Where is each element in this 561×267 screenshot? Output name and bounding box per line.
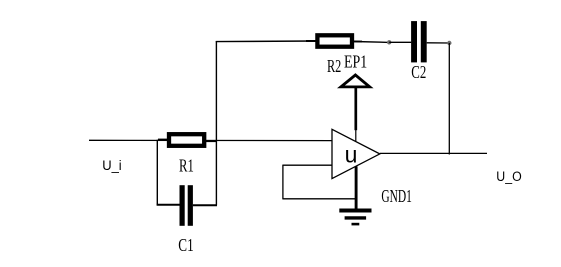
wire feedback-loop left vertical: [282, 165, 284, 200]
wire C1 bottom-right lead: [193, 204, 217, 206]
wire output-node vertical drop: [448, 43, 450, 155]
wire C1 bottom-left lead: [157, 204, 180, 206]
svg-text:R1: R1: [179, 155, 194, 175]
wire R1 left lead: [158, 139, 170, 141]
svg-text:R2: R2: [327, 56, 341, 76]
wire op-amp upper input: [283, 164, 332, 166]
resistor R2: [317, 35, 352, 46]
resistor R1: [169, 134, 204, 146]
wire R2 left lead: [306, 40, 318, 42]
wire dot to C2: [389, 41, 411, 43]
svg-text:U_i: U_i: [102, 158, 122, 173]
wire R2 right lead stub: [353, 40, 362, 42]
junction dot (R2-C2 node): [387, 40, 391, 44]
wire C2 to output node: [427, 42, 450, 44]
wire input U_i horizontal: [89, 139, 332, 141]
svg-text:U_O: U_O: [496, 169, 521, 184]
svg-text:C2: C2: [411, 62, 426, 82]
wire R2 right lead: [354, 41, 389, 44]
wire parallel-box left vertical: [156, 140, 158, 205]
wire feedback/right vertical (top corner to C1): [215, 41, 217, 205]
wire feedback-loop bottom horizontal: [283, 198, 356, 200]
junction dot (C2-output node): [447, 41, 451, 45]
wire R1 right lead: [204, 140, 217, 142]
op-amp U1: [332, 129, 380, 178]
wire op-amp to ground (thick): [355, 166, 358, 209]
capacitor C2: [411, 21, 427, 62]
svg-text:GND1: GND1: [381, 186, 412, 206]
power symbol EP1 (arrow): [341, 75, 370, 141]
wire output U_O horizontal: [380, 152, 487, 154]
svg-text:EP1: EP1: [344, 51, 367, 71]
capacitor C1: [180, 185, 193, 226]
wire feedback top horizontal: [216, 40, 316, 43]
svg-text:u: u: [345, 141, 358, 167]
svg-text:C1: C1: [178, 235, 193, 255]
ground GND1: [339, 211, 371, 225]
